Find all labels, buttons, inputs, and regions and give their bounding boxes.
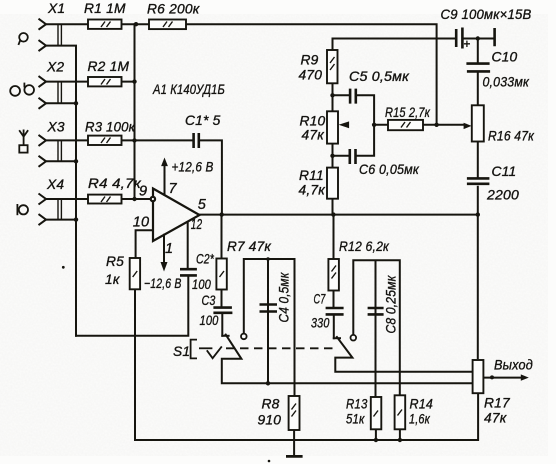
svg-text:12: 12	[191, 217, 203, 233]
svg-text:R8: R8	[262, 397, 280, 412]
svg-text:С6 0,05мк: С6 0,05мк	[359, 162, 419, 177]
svg-text:7: 7	[169, 181, 178, 197]
svg-text:С3: С3	[202, 293, 216, 308]
svg-text:X1: X1	[47, 1, 65, 16]
svg-text:R12 6,2к: R12 6,2к	[339, 239, 389, 254]
svg-text:R11: R11	[299, 168, 324, 183]
svg-text:С1* 5: С1* 5	[185, 113, 221, 128]
svg-text:X3: X3	[47, 120, 65, 135]
svg-text:R1 1M: R1 1M	[84, 1, 126, 16]
svg-text:R6 200к: R6 200к	[147, 2, 200, 17]
svg-text:100: 100	[200, 313, 219, 328]
svg-text:910: 910	[258, 413, 282, 428]
svg-text:С2*: С2*	[196, 252, 214, 267]
svg-text:10: 10	[133, 214, 150, 230]
svg-text:С7: С7	[314, 292, 327, 307]
svg-text:1,6к: 1,6к	[409, 412, 430, 427]
svg-text:С5 0,5мк: С5 0,5мк	[349, 69, 409, 84]
svg-text:А1 К140УД1Б: А1 К140УД1Б	[152, 82, 225, 97]
svg-text:51к: 51к	[346, 412, 365, 427]
svg-text:47к: 47к	[302, 128, 325, 143]
svg-text:X4: X4	[46, 177, 64, 192]
svg-text:R9: R9	[301, 53, 319, 68]
svg-text:R15 2,7к: R15 2,7к	[385, 105, 430, 120]
svg-text:9: 9	[139, 184, 147, 200]
svg-text:R7 47к: R7 47к	[227, 239, 271, 254]
svg-text:R3 100к: R3 100к	[85, 120, 135, 135]
svg-text:С8 0,25мк: С8 0,25мк	[384, 275, 399, 333]
svg-text:330: 330	[311, 316, 330, 331]
svg-text:1: 1	[165, 241, 173, 257]
svg-text:R13: R13	[346, 397, 368, 412]
svg-text:1к: 1к	[105, 272, 120, 287]
svg-text:47к: 47к	[484, 411, 507, 426]
svg-text:+12,6 В: +12,6 В	[172, 160, 214, 175]
svg-text:С9 100мк×15В: С9 100мк×15В	[441, 7, 532, 22]
svg-text:Выход: Выход	[494, 358, 533, 373]
svg-text:100: 100	[192, 277, 211, 292]
svg-text:S1: S1	[173, 344, 190, 359]
svg-text:С11: С11	[492, 164, 517, 179]
svg-text:2200: 2200	[486, 188, 519, 203]
svg-text:R16 47к: R16 47к	[488, 129, 534, 144]
svg-text:470: 470	[299, 68, 323, 83]
svg-text:С10: С10	[492, 50, 518, 65]
svg-text:X2: X2	[46, 60, 64, 75]
svg-text:R17: R17	[484, 396, 511, 411]
svg-text:R5: R5	[106, 254, 124, 269]
svg-text:R10: R10	[300, 114, 326, 129]
svg-text:5: 5	[198, 197, 207, 213]
svg-text:С4 0,5мк: С4 0,5мк	[277, 272, 292, 322]
svg-text:R4 4,7к: R4 4,7к	[88, 176, 141, 191]
svg-text:0,033мк: 0,033мк	[483, 75, 530, 90]
svg-text:R2 1M: R2 1M	[88, 59, 130, 74]
svg-text:−12,6 В: −12,6 В	[144, 276, 182, 291]
svg-text:4,7к: 4,7к	[299, 183, 326, 198]
svg-text:R14: R14	[410, 397, 434, 412]
